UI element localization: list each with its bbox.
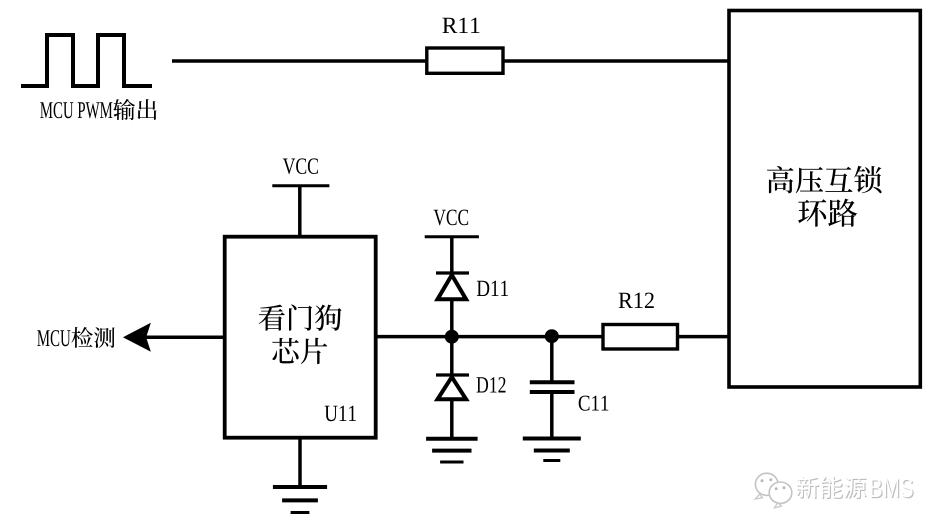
label MCU (latin part) <box>37 330 70 346</box>
ground below U11 <box>298 438 302 487</box>
VCC symbol above U11 <box>272 184 329 187</box>
watermark logo: wechat bubbles <box>755 473 778 495</box>
label D12 <box>477 377 506 392</box>
VCC symbol above D11 <box>425 235 479 238</box>
ground below D12 <box>426 437 478 441</box>
label 看门狗 <box>259 305 285 331</box>
label 芯片 <box>272 338 299 363</box>
HV interlock box <box>729 11 920 388</box>
label D11 <box>477 281 508 296</box>
wire R12 to HV box <box>676 335 729 339</box>
watermark text 新能源BMS (embossed) <box>797 477 819 499</box>
label C11 <box>579 396 609 411</box>
resistor R11 <box>427 48 503 73</box>
MCU PWM waveform <box>21 35 152 86</box>
label U11 <box>325 406 356 422</box>
diode D11 <box>436 271 469 274</box>
label R11 <box>442 18 479 33</box>
label 高压互锁 <box>767 166 793 193</box>
watchdog chip box U11 <box>225 237 376 438</box>
label VCC (D11) <box>434 210 469 226</box>
label R12 <box>619 293 654 308</box>
junction node B <box>545 329 559 343</box>
resistor R12 <box>603 325 678 350</box>
junction node A <box>445 330 459 344</box>
ground below C11 <box>523 437 581 441</box>
wire PWM to R11 <box>172 59 428 63</box>
diode D12 <box>450 337 454 375</box>
arrow head MCU detection <box>124 324 150 351</box>
label 检测 <box>71 327 92 348</box>
wire U11 right pin to R12 <box>376 335 604 339</box>
label 输出 <box>113 99 135 120</box>
capacitor C11 <box>550 336 554 380</box>
label VCC (U11) <box>283 158 318 174</box>
wire R11 to HV box <box>502 59 729 63</box>
label 环路 <box>798 199 826 227</box>
label MCU PWM (latin part) <box>40 102 112 118</box>
wire U11 left pin to arrow <box>146 336 225 340</box>
